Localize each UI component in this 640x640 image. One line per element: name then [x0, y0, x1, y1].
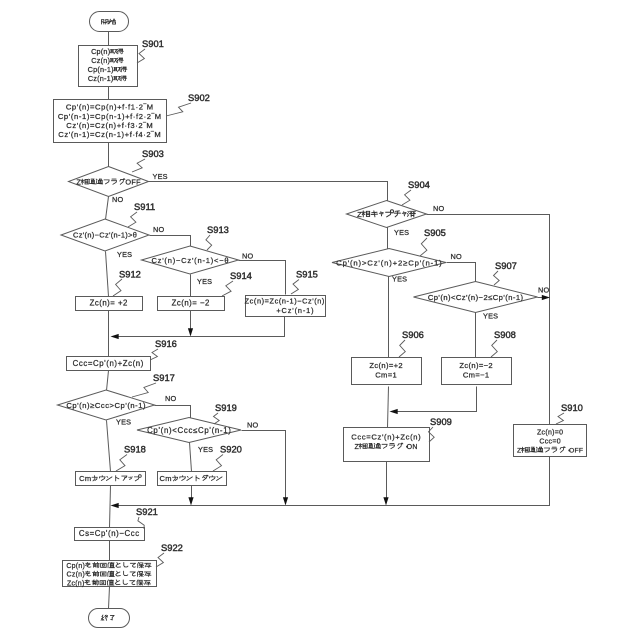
wire S904 NO right and down to S910 [427, 215, 550, 425]
process S909 Ccc update flag ON [344, 428, 430, 462]
decision S911 Cz delta > theta [61, 219, 149, 251]
svg-text:S912: S912 [119, 269, 141, 280]
wire S901 to S902 [108, 87, 110, 100]
svg-text:S918: S918 [124, 444, 146, 455]
wire S909 down to merge2 [386, 462, 388, 503]
svg-text:Cz'(n)=Cz(n)+f·f3·2‾M: Cz'(n)=Cz(n)+f·f3·2‾M [66, 121, 153, 130]
decision S905 plus-2 window [332, 249, 446, 277]
svg-text:Cz(n-1): Cz(n-1) [88, 74, 114, 83]
svg-text:Cz'(n)−Cz'(n-1)<−θ: Cz'(n)−Cz'(n-1)<−θ [151, 256, 229, 265]
svg-text:Cz(n): Cz(n) [67, 572, 85, 579]
wire S920 down to merge2 [191, 486, 193, 503]
svg-text:S902: S902 [188, 92, 210, 103]
svg-text:S917: S917 [153, 372, 175, 383]
svg-text:Zc(n)=+2: Zc(n)=+2 [369, 361, 403, 370]
process S902 offset formulas [54, 100, 167, 143]
svg-text:Cp(n-1): Cp(n-1) [88, 65, 114, 74]
merge wire 2 horizontal [114, 457, 550, 506]
svg-text:S919: S919 [215, 402, 237, 413]
svg-text:S915: S915 [296, 269, 318, 280]
svg-text:Ccc=Cz'(n)+Zc(n): Ccc=Cz'(n)+Zc(n) [351, 433, 421, 442]
svg-text:Zc(n)= −2: Zc(n)= −2 [172, 299, 210, 308]
svg-text:S910: S910 [561, 402, 583, 413]
wire S918 to S921 spine [110, 486, 111, 528]
wire S914 down to merge [190, 311, 192, 334]
svg-text:S911: S911 [134, 201, 155, 212]
process S920 Cm count down [158, 472, 227, 486]
wire S903 YES to S904 [149, 182, 388, 201]
process S906 Zc=+2 Cm=1 [352, 358, 422, 385]
svg-text:YES: YES [197, 277, 212, 286]
svg-text:Zc(n)= +2: Zc(n)= +2 [90, 299, 128, 308]
terminal start 開始 [90, 12, 129, 32]
svg-text:Cp'(n)=Cp(n)+f·f1·2‾M: Cp'(n)=Cp(n)+f·f1·2‾M [66, 103, 154, 112]
decision S913 Cz delta < -theta [142, 246, 239, 274]
svg-text:Z: Z [357, 210, 362, 219]
svg-text:S904: S904 [408, 179, 430, 190]
svg-text:Cp(n): Cp(n) [66, 563, 85, 570]
svg-text:Cz(n): Cz(n) [91, 56, 110, 65]
svg-text:Cz'(n-1)=Cz(n-1)+f·f4·2‾M: Cz'(n-1)=Cz(n-1)+f·f4·2‾M [58, 130, 161, 139]
svg-text:S903: S903 [142, 148, 164, 159]
svg-text:Cm: Cm [79, 474, 91, 483]
wire S917 NO to S919 [155, 406, 191, 418]
svg-text:Zc(n)=−2: Zc(n)=−2 [459, 361, 493, 370]
wire S907 NO right arrow to vertical [538, 297, 544, 299]
wire S919 NO down to merge2 [242, 431, 286, 503]
wire S904 YES to S905 [387, 228, 389, 250]
svg-text:+Cz'(n-1): +Cz'(n-1) [276, 306, 314, 315]
svg-text:Zc(n)=Zc(n-1)−Cz'(n): Zc(n)=Zc(n-1)−Cz'(n) [245, 297, 325, 306]
wire S908 down and left arrow merge [393, 387, 477, 412]
process S921 Cs=Cp-Ccc [75, 528, 145, 541]
wire S906 to S909 [388, 387, 389, 428]
svg-text:S908: S908 [494, 329, 516, 340]
svg-text:S905: S905 [424, 227, 446, 238]
svg-text:S906: S906 [402, 329, 424, 340]
svg-text:Cs=Cp'(n)−Ccc: Cs=Cp'(n)−Ccc [79, 529, 140, 538]
svg-text:NO: NO [538, 286, 549, 295]
wire S913 NO to S915 [239, 261, 286, 295]
svg-text:OFF: OFF [125, 178, 141, 187]
svg-text:Cp'(n)<Ccc≤Cp'(n-1): Cp'(n)<Ccc≤Cp'(n-1) [147, 426, 231, 435]
wire S913 YES to S914 [190, 275, 192, 297]
svg-text:Zc(n): Zc(n) [67, 580, 85, 587]
process S915 Zc recurrence [246, 296, 326, 317]
svg-text:Cp'(n-1)=Cp(n-1)+f·f2·2‾M: Cp'(n-1)=Cp(n-1)+f·f2·2‾M [58, 112, 162, 121]
svg-text:OFF: OFF [569, 448, 583, 455]
process S908 Zc=-2 Cm=-1 [442, 358, 512, 385]
process S912 Zc=+2 [76, 297, 143, 311]
svg-text:Cp'(n)>Cz'(n)+2≥Cp'(n-1): Cp'(n)>Cz'(n)+2≥Cp'(n-1) [336, 259, 442, 268]
svg-text:S901: S901 [142, 38, 164, 49]
svg-text:ON: ON [407, 444, 418, 451]
wire S905 NO to S907 [447, 263, 476, 282]
decision S917 Cp >= Ccc > Cp prev [58, 390, 155, 420]
svg-text:Ccc=0: Ccc=0 [539, 438, 561, 445]
svg-text:Cp'(n)≥Ccc>Cp'(n-1): Cp'(n)≥Ccc>Cp'(n-1) [66, 401, 146, 410]
svg-text:S907: S907 [495, 260, 517, 271]
svg-text:YES: YES [392, 275, 407, 284]
wire S922 to end [109, 587, 110, 609]
svg-text:NO: NO [247, 421, 258, 430]
decision S904 Z-phase captured [347, 201, 427, 228]
svg-text:NO: NO [153, 225, 164, 234]
process S914 Zc=-2 [158, 297, 225, 311]
svg-text:Z: Z [76, 178, 81, 187]
wire S915 down and left merge arrow [114, 317, 285, 337]
wire S903 NO to S911 [106, 197, 109, 220]
svg-text:YES: YES [394, 228, 409, 237]
svg-text:Cz'(n)−Cz'(n-1)>θ: Cz'(n)−Cz'(n-1)>θ [73, 231, 137, 240]
process S901 get values [79, 46, 138, 87]
process S918 Cm count up [76, 472, 146, 486]
svg-text:S916: S916 [155, 338, 177, 349]
wire S907 YES to S908 [475, 313, 477, 358]
svg-text:Ccc=Cp'(n)+Zc(n): Ccc=Cp'(n)+Zc(n) [73, 359, 144, 368]
svg-text:YES: YES [483, 312, 498, 321]
svg-text:Cp'(n)<Cz'(n)−2≤Cp'(n-1): Cp'(n)<Cz'(n)−2≤Cp'(n-1) [428, 293, 524, 302]
svg-text:YES: YES [116, 418, 131, 427]
svg-text:NO: NO [165, 394, 176, 403]
wire S919 YES to S920 [190, 443, 192, 472]
wire S902 to S903 [108, 143, 110, 167]
svg-text:NO: NO [112, 195, 123, 204]
wire S905 YES to S906 [388, 277, 390, 358]
svg-text:YES: YES [153, 172, 168, 181]
svg-text:S921: S921 [136, 506, 158, 517]
svg-text:NO: NO [242, 252, 253, 261]
svg-text:Cm=−1: Cm=−1 [463, 370, 490, 379]
svg-text:Cm: Cm [160, 474, 172, 483]
process S910 reset flag OFF [514, 425, 587, 457]
wire S917 YES to S918 [107, 421, 111, 472]
svg-text:S909: S909 [430, 416, 452, 427]
svg-text:S913: S913 [207, 224, 229, 235]
wire S916 to S917 [107, 371, 109, 391]
wire start to S901 [108, 32, 110, 46]
svg-text:Z: Z [517, 448, 521, 455]
svg-text:YES: YES [198, 445, 213, 454]
svg-text:YES: YES [117, 250, 132, 259]
svg-text:Cp(n): Cp(n) [91, 47, 110, 56]
svg-text:Cm=1: Cm=1 [375, 370, 397, 379]
wire S911 NO to S913 [150, 236, 191, 247]
terminal end 終了 [89, 609, 130, 628]
svg-text:S920: S920 [220, 444, 242, 455]
decision S907 minus-2 window [414, 282, 538, 313]
decision S903 Z-phase pass flag OFF [69, 167, 149, 197]
wire S921 to S922 [109, 541, 111, 561]
svg-text:Zc(n)=0: Zc(n)=0 [537, 429, 563, 436]
svg-text:NO: NO [433, 204, 444, 213]
svg-text:S922: S922 [161, 542, 183, 553]
process S916 Ccc=Cp+Zc [67, 357, 151, 371]
process S922 save previous values [63, 561, 157, 587]
svg-text:S914: S914 [230, 270, 252, 281]
wire S911 YES to S912 [106, 252, 109, 297]
decision S919 Cp < Ccc <= Cp prev [137, 418, 241, 443]
svg-text:NO: NO [451, 252, 462, 261]
wire S912 to S916 spine [108, 311, 110, 357]
